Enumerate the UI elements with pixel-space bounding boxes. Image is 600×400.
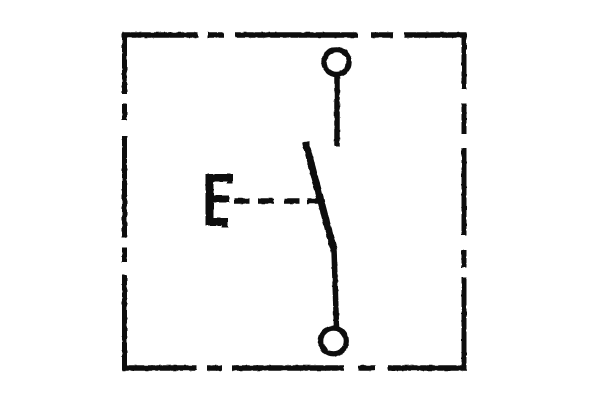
wire: bottom stem <box>334 249 337 327</box>
label E (actuator) <box>206 174 234 228</box>
enclosure dashed border: right side <box>462 33 467 371</box>
terminal circle bottom <box>321 328 347 354</box>
wire: top stem <box>334 75 340 147</box>
switch blade (moving contact) <box>306 142 335 251</box>
enclosure dashed border: top side <box>122 32 467 37</box>
actuator dashed linkage <box>235 198 321 204</box>
enclosure dashed border: bottom side <box>122 365 467 370</box>
terminal circle top <box>324 50 349 75</box>
enclosure dashed border: left side <box>122 33 127 370</box>
